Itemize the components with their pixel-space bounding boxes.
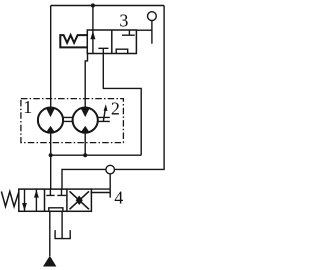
junction dot (motor 1 line / junction line) xyxy=(49,153,53,157)
valve 4 right square crossed paths xyxy=(70,191,90,209)
wire valve 4 tank line to reservoir xyxy=(61,211,63,238)
shaft coupling between motors xyxy=(63,117,72,121)
valve 3 right square bottom bracket xyxy=(116,49,128,53)
valve 4 middle square bottom bracket xyxy=(49,208,63,212)
valve 4 left square down arrow xyxy=(24,189,26,211)
junction dot (motor 2 line / junction line) xyxy=(83,153,87,157)
junction dot (top rail / valve 3 supply) xyxy=(91,3,95,7)
motor M2 bottom triangle xyxy=(81,126,90,132)
valve 4 body xyxy=(19,189,92,211)
svg-text:3: 3 xyxy=(119,10,128,30)
valve 4 middle square blocked port T (right) xyxy=(57,189,66,195)
wire valve 3 tank port down and right to feedback xyxy=(103,54,141,156)
valve 3 lever link line xyxy=(136,29,152,31)
flow arrow to system (filled triangle) xyxy=(43,256,56,267)
valve 3 body xyxy=(87,30,136,54)
wire left rail (top rail corner down through motor 1 to valve 4 port) xyxy=(50,6,52,190)
valve 4 lever knob circle xyxy=(106,165,115,174)
svg-text:2: 2 xyxy=(111,98,120,118)
wire top rail xyxy=(51,5,164,7)
valve 3 lever stem xyxy=(151,16,153,44)
motor M2 top triangle xyxy=(81,108,90,117)
motor M1 bottom triangle xyxy=(46,126,55,132)
enclosure (flow divider assembly, chain line) xyxy=(21,99,124,143)
wire valve 4 outlet down to arrow xyxy=(49,211,51,256)
rotation arrow at motor 2 shaft xyxy=(103,110,105,122)
shaft stub right of motor 2 xyxy=(98,117,110,121)
svg-text:4: 4 xyxy=(114,188,123,208)
valve 4 dividers xyxy=(45,189,67,211)
svg-text:1: 1 xyxy=(23,97,32,117)
valve 3 lever knob circle xyxy=(148,12,157,21)
valve 4 lever bars xyxy=(91,189,111,192)
valve 4 left square up arrow xyxy=(35,189,37,211)
tank reservoir symbol xyxy=(55,230,70,239)
valve 3 spring (left) xyxy=(60,35,87,47)
wire right rail (top rail down, left along pilot line to valve 4 top port) xyxy=(62,6,164,190)
valve 3 left square blocked port T xyxy=(98,48,108,53)
valve 3 right square blocked port T (top) xyxy=(122,30,135,35)
wire junction line to valve 4 xyxy=(51,154,142,156)
motor M1 top triangle xyxy=(46,108,55,117)
wire valve 3 supply drop xyxy=(92,6,94,31)
valve 4 lever stem xyxy=(109,170,111,198)
valve 3 position divider xyxy=(111,30,113,54)
hydraulic motor M1 circle xyxy=(38,108,63,133)
valve 4 middle square blocked port T (left) xyxy=(46,189,54,195)
hydraulic motor M2 circle xyxy=(73,108,98,133)
valve 3 left square flow line with up arrow xyxy=(92,30,94,54)
valve 4 spring W (left) xyxy=(1,192,18,207)
wire valve 3 left-bottom port jog down to motor 2 xyxy=(85,54,87,156)
